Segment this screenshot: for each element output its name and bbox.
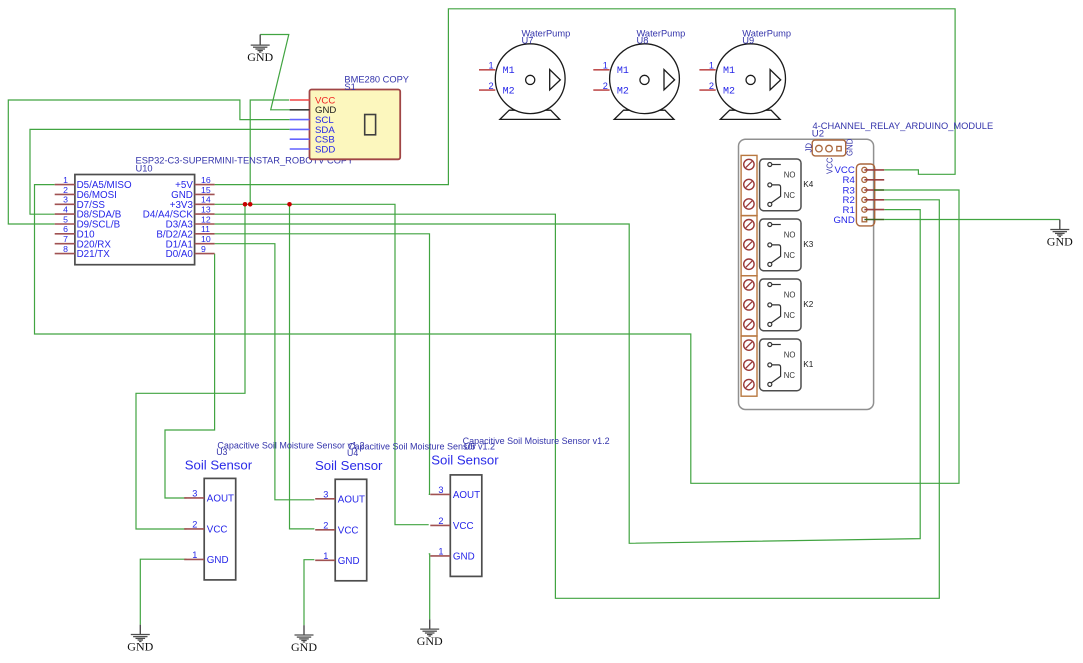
svg-text:1: 1 bbox=[438, 546, 443, 556]
motor U7 water pump bbox=[479, 28, 570, 119]
svg-text:GND: GND bbox=[127, 639, 153, 653]
IC U10 pin 5 D9/SCL/B bbox=[55, 214, 121, 230]
wire U3 GND to ground bbox=[140, 559, 186, 625]
relay K1 bbox=[760, 339, 814, 391]
wire U4 GND to ground bbox=[304, 560, 314, 626]
svg-text:U8: U8 bbox=[637, 35, 649, 45]
svg-text:JD: JD bbox=[805, 143, 814, 153]
IC U10 pin 4 D8/SDA/B bbox=[55, 204, 122, 220]
svg-text:M2: M2 bbox=[503, 87, 515, 98]
svg-text:GND: GND bbox=[247, 50, 273, 64]
svg-text:M1: M1 bbox=[503, 66, 515, 77]
junction node +3V3 at x=250 bbox=[248, 202, 253, 207]
sensor U5 capacitive soil moisture bbox=[430, 436, 609, 576]
svg-text:K1: K1 bbox=[803, 360, 813, 369]
svg-text:M1: M1 bbox=[723, 66, 735, 77]
wire net +5V (ESP32 +5V to relay VCC) bbox=[215, 9, 956, 185]
svg-text:M1: M1 bbox=[617, 66, 629, 77]
svg-text:AOUT: AOUT bbox=[453, 490, 480, 501]
svg-text:U3: U3 bbox=[216, 447, 227, 457]
wire net D3/A3 to relay R1 bbox=[215, 210, 921, 544]
svg-text:6: 6 bbox=[63, 224, 68, 234]
wire net +3V3 branch to BME280 VCC bbox=[250, 100, 289, 204]
svg-text:GND: GND bbox=[207, 555, 229, 566]
IC U10 pin 11 B/D2/A2 bbox=[156, 224, 214, 240]
svg-text:1: 1 bbox=[488, 61, 493, 71]
svg-text:K3: K3 bbox=[803, 240, 813, 249]
wire net B/D2/A2 to U5 AOUT bbox=[215, 234, 430, 495]
svg-text:Capacitive Soil Moisture Senso: Capacitive Soil Moisture Sensor v1.2 bbox=[217, 441, 364, 451]
svg-text:NC: NC bbox=[784, 311, 796, 320]
svg-text:2: 2 bbox=[192, 519, 197, 529]
svg-text:GND: GND bbox=[1047, 234, 1073, 248]
svg-text:2: 2 bbox=[438, 516, 443, 526]
svg-text:Soil Sensor: Soil Sensor bbox=[315, 458, 383, 473]
motor U9 water pump bbox=[699, 28, 791, 119]
junction node +3V3 at x=245 bbox=[243, 202, 248, 207]
svg-text:U9: U9 bbox=[742, 35, 754, 45]
wire net +3V3 branch to U4 VCC bbox=[290, 204, 315, 529]
sensor U4 capacitive soil moisture bbox=[315, 441, 495, 580]
sensor U3 capacitive soil moisture bbox=[184, 441, 364, 580]
IC U10 pin 2 D6/MOSI bbox=[55, 185, 117, 201]
svg-text:GND: GND bbox=[338, 556, 360, 567]
sensor S1 pin SDA bbox=[290, 125, 336, 136]
sensor S1 pin GND bbox=[290, 105, 337, 116]
svg-text:2: 2 bbox=[603, 81, 608, 91]
ground symbol below U3 bbox=[127, 625, 153, 654]
sensor S1 pin CSB bbox=[290, 135, 335, 146]
svg-text:3: 3 bbox=[438, 485, 443, 495]
svg-text:1: 1 bbox=[323, 551, 328, 561]
svg-text:NO: NO bbox=[784, 231, 796, 240]
ground symbol below U5 bbox=[417, 619, 443, 648]
relay module U2 outline and terminal strip bbox=[739, 121, 994, 409]
svg-text:D0/A0: D0/A0 bbox=[166, 249, 194, 260]
ground symbol top (BME280 GND net) bbox=[247, 35, 273, 65]
svg-text:U4: U4 bbox=[347, 448, 358, 458]
svg-text:U7: U7 bbox=[522, 35, 534, 45]
svg-text:1: 1 bbox=[603, 61, 608, 71]
relay K2 bbox=[760, 279, 814, 331]
IC U10 ESP32-C3-SUPERMINI body and title bbox=[75, 156, 353, 265]
svg-text:1: 1 bbox=[63, 175, 68, 185]
sensor S1 pin VCC bbox=[290, 95, 336, 106]
svg-text:1: 1 bbox=[192, 550, 197, 560]
svg-text:NC: NC bbox=[784, 251, 796, 260]
svg-text:U10: U10 bbox=[136, 164, 153, 174]
connector JD-VCC jumper header on relay module bbox=[805, 138, 855, 174]
svg-text:M2: M2 bbox=[723, 87, 735, 98]
svg-text:2: 2 bbox=[63, 185, 68, 195]
connector relay control header VCC/R4/R3/R2/R1/GND bbox=[833, 164, 884, 226]
IC U10 pin 14 +3V3 bbox=[170, 195, 215, 211]
wire net D5/A5/MISO to relay R3 bbox=[35, 185, 960, 484]
svg-text:D21/TX: D21/TX bbox=[77, 249, 111, 260]
svg-text:7: 7 bbox=[63, 234, 68, 244]
svg-text:3: 3 bbox=[63, 195, 68, 205]
IC U10 pin 13 D4/A4/SCK bbox=[143, 204, 215, 220]
relay K4 bbox=[760, 159, 814, 211]
svg-text:VCC: VCC bbox=[826, 157, 835, 174]
svg-text:11: 11 bbox=[201, 224, 210, 234]
svg-text:K4: K4 bbox=[803, 180, 813, 189]
IC U10 pin 15 GND bbox=[171, 185, 214, 201]
svg-text:2: 2 bbox=[709, 81, 714, 91]
svg-text:U2: U2 bbox=[812, 129, 824, 140]
wire net D4/A4/SCK to relay R2 bbox=[215, 200, 940, 599]
wire BME280 GND to ground bbox=[260, 35, 290, 110]
svg-text:16: 16 bbox=[201, 175, 211, 185]
IC U10 pin 7 D20/RX bbox=[55, 234, 112, 250]
svg-text:S1: S1 bbox=[344, 82, 355, 92]
svg-text:VCC: VCC bbox=[453, 521, 474, 532]
svg-text:VCC: VCC bbox=[338, 525, 359, 536]
svg-text:Soil Sensor: Soil Sensor bbox=[431, 453, 499, 468]
svg-text:NO: NO bbox=[784, 171, 796, 180]
sensor S1 pin SDD bbox=[290, 144, 336, 155]
svg-text:AOUT: AOUT bbox=[207, 494, 234, 505]
svg-text:13: 13 bbox=[201, 204, 211, 214]
svg-text:NO: NO bbox=[784, 291, 796, 300]
svg-text:GND: GND bbox=[845, 138, 854, 156]
wire net D1/A1 to U4 AOUT bbox=[215, 244, 315, 500]
IC U10 pin 6 D10 bbox=[55, 224, 95, 240]
svg-text:3: 3 bbox=[323, 489, 328, 499]
IC U10 pin 12 D3/A3 bbox=[166, 214, 215, 230]
svg-text:NO: NO bbox=[784, 351, 796, 360]
svg-text:3: 3 bbox=[192, 488, 197, 498]
wire relay GND to ground bbox=[884, 219, 1060, 221]
relay K3 bbox=[760, 219, 814, 271]
svg-text:15: 15 bbox=[201, 185, 211, 195]
IC U10 pin 16 +5V bbox=[175, 175, 214, 191]
ground symbol right (relay GND net) bbox=[1047, 220, 1073, 249]
svg-text:NC: NC bbox=[784, 371, 796, 380]
sensor S1 pin SCL bbox=[290, 115, 335, 126]
svg-text:4: 4 bbox=[63, 204, 68, 214]
svg-text:1: 1 bbox=[709, 61, 714, 71]
svg-text:GND: GND bbox=[453, 552, 475, 563]
wire net SCL (ESP32 D9/SCL/B to BME280 SCL) bbox=[8, 100, 289, 224]
svg-text:SDD: SDD bbox=[315, 144, 335, 155]
junction node +3V3 at x=289 bbox=[287, 202, 292, 207]
svg-text:8: 8 bbox=[63, 244, 68, 254]
svg-text:Capacitive Soil Moisture Senso: Capacitive Soil Moisture Sensor v1.2 bbox=[463, 436, 610, 446]
svg-text:GND: GND bbox=[833, 215, 854, 226]
sensor S1 BME280 body and title bbox=[310, 75, 409, 160]
IC U10 pin 9 D0/A0 bbox=[166, 244, 215, 260]
svg-text:K2: K2 bbox=[803, 300, 813, 309]
wire U5 GND to ground bbox=[429, 554, 430, 620]
wire net +3V3 branch to U3 VCC bbox=[136, 204, 245, 529]
ground symbol below U4 bbox=[291, 625, 317, 654]
svg-text:AOUT: AOUT bbox=[338, 494, 365, 505]
svg-text:VCC: VCC bbox=[207, 525, 228, 536]
svg-text:2: 2 bbox=[323, 520, 328, 530]
IC U10 pin 8 D21/TX bbox=[55, 244, 111, 260]
svg-text:4-CHANNEL_RELAY_ARDUINO_MODULE: 4-CHANNEL_RELAY_ARDUINO_MODULE bbox=[813, 121, 994, 131]
svg-text:12: 12 bbox=[201, 214, 211, 224]
wire net SDA (ESP32 D8/SDA/B to BME280 SDA) bbox=[30, 129, 290, 214]
wire net D0/A0 to U3 AOUT bbox=[165, 254, 215, 498]
IC U10 pin 10 D1/A1 bbox=[166, 234, 215, 250]
svg-text:M2: M2 bbox=[617, 87, 629, 98]
wire net +3V3 trunk (ESP32 +3V3 to U5 VCC) bbox=[215, 204, 429, 524]
svg-text:10: 10 bbox=[201, 234, 211, 244]
svg-text:9: 9 bbox=[201, 244, 206, 254]
IC U10 pin 3 D7/SS bbox=[55, 195, 106, 211]
motor U8 water pump bbox=[593, 28, 685, 119]
svg-text:NC: NC bbox=[784, 191, 796, 200]
svg-text:5: 5 bbox=[63, 214, 68, 224]
IC U10 pin 1 D5/A5/MISO bbox=[55, 175, 132, 191]
svg-text:GND: GND bbox=[417, 634, 443, 648]
svg-text:Soil Sensor: Soil Sensor bbox=[185, 457, 253, 472]
svg-text:14: 14 bbox=[201, 195, 211, 205]
svg-text:GND: GND bbox=[291, 640, 317, 654]
svg-text:U5: U5 bbox=[464, 442, 475, 452]
svg-text:2: 2 bbox=[488, 81, 493, 91]
